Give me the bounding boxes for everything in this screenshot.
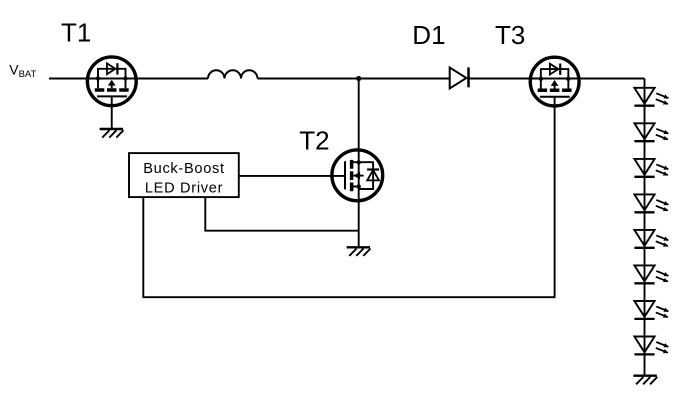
- wire driver output to T2 gate: [239, 175, 345, 177]
- svg-text:BAT: BAT: [19, 69, 37, 80]
- ground at LED string: [633, 376, 657, 385]
- wire driver sense to T2 source: [205, 197, 358, 231]
- LED 1: [634, 88, 668, 106]
- svg-text:T3: T3: [495, 20, 525, 50]
- wire T1 gate to ground: [111, 96, 113, 129]
- inductor L1: [208, 70, 258, 78]
- label VBAT: [9, 62, 36, 81]
- wire switch node through T2 to ground: [358, 79, 360, 248]
- ground at T2 source: [347, 247, 371, 256]
- ground at T1: [100, 129, 124, 138]
- node switch junction: [356, 76, 361, 81]
- transistor T3: [530, 57, 579, 106]
- svg-text:D1: D1: [412, 20, 445, 50]
- svg-text:Buck-Boost: Buck-Boost: [143, 161, 225, 177]
- LED 4: [634, 194, 668, 212]
- wire driver to T3 gate: [143, 96, 554, 297]
- svg-text:T2: T2: [299, 125, 329, 155]
- transistor T2: [332, 150, 383, 201]
- LED 2: [634, 123, 668, 141]
- svg-text:LED Driver: LED Driver: [145, 180, 223, 196]
- wire inductor to diode D1: [258, 78, 450, 80]
- wire LED string vertical: [644, 79, 646, 376]
- box Buck-Boost LED Driver: [129, 153, 239, 197]
- diode D1: [450, 67, 469, 88]
- LED 6: [634, 265, 668, 283]
- LED 3: [634, 159, 668, 177]
- wire VBAT input to inductor (through T1): [49, 78, 208, 80]
- svg-text:T1: T1: [61, 18, 91, 48]
- LED 7: [634, 301, 668, 319]
- transistor T1: [87, 57, 136, 106]
- LED 5: [634, 230, 668, 248]
- wire D1 to LED string (through T3): [469, 78, 645, 80]
- LED 8: [634, 337, 668, 355]
